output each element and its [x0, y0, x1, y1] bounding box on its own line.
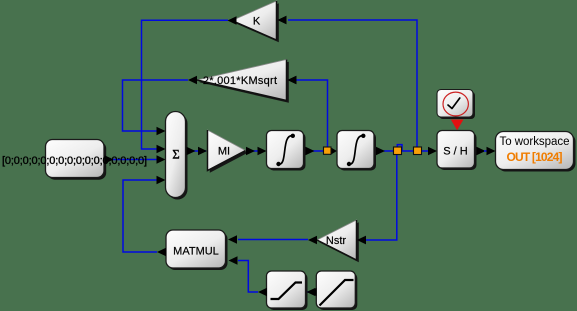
gain -2*.001*KMsqrt: [188, 60, 297, 103]
MATMUL block: [157, 230, 228, 270]
wire S/H to workspace: [484, 147, 496, 155]
svg-text:[0;0;0;0;0;0;0;0;0;0;0;0;0;0;0: [0;0;0;0;0;0;0;0;0;0;0;0;0;0;0;0]: [2, 155, 147, 167]
integrator 1: [267, 131, 315, 171]
constant block [0;...;0]: [2, 140, 147, 180]
activation link red arrow: [451, 120, 464, 131]
summation block U1: [166, 112, 196, 200]
link point node C: [414, 147, 422, 155]
wire node B down to Nstr input: [357, 155, 397, 245]
wire Nstr output to MATMUL: [228, 235, 308, 243]
svg-text:MI: MI: [218, 146, 230, 158]
wire constant to sum: [110, 155, 166, 163]
svg-text:MATMUL: MATMUL: [173, 245, 219, 257]
wire node A up to KMsqrt input: [287, 76, 327, 148]
saturation A: [258, 271, 315, 310]
integrator 2: [337, 131, 385, 171]
wire MATMUL output to sum: [123, 176, 166, 252]
gain Nstr: [308, 220, 366, 262]
wire sum to MI: [186, 147, 207, 155]
wire node C up to K input: [278, 16, 418, 148]
link point node B: [394, 147, 402, 155]
wire integrator 1 to integrator 2: [313, 147, 337, 155]
gain K: [228, 1, 287, 42]
activation clock block: [437, 90, 475, 120]
sample and hold S/H: [437, 131, 486, 171]
svg-text:To workspace: To workspace: [500, 136, 570, 148]
svg-text:Nstr: Nstr: [326, 235, 347, 247]
svg-text:Σ: Σ: [172, 147, 179, 161]
wire MI to integrator 1: [252, 147, 267, 155]
svg-text:S / H: S / H: [443, 146, 468, 158]
saturation B: [308, 271, 358, 310]
wire K output to sum: [142, 20, 229, 153]
svg-text:OUT [1024]: OUT [1024]: [507, 150, 563, 164]
svg-text:K: K: [253, 16, 261, 28]
wire saturation B output to saturation A: [306, 291, 316, 293]
wire KMsqrt output to sum: [123, 80, 189, 135]
gain MI: [208, 130, 256, 173]
link point node A: [324, 147, 332, 154]
wire integrator 2 to S/H with link points: [384, 145, 437, 156]
wire saturation A output to MATMUL: [229, 256, 259, 292]
to workspace block OUT: [496, 132, 576, 172]
svg-text:-2*.001*KMsqrt: -2*.001*KMsqrt: [199, 75, 277, 87]
